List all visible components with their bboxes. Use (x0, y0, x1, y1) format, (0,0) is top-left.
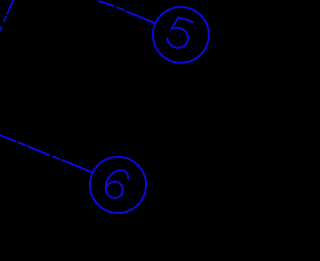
wire W3 dash segment a (0, 134, 15, 141)
wire W2 dash segment a (99, 1, 114, 6)
node label 5 (handwritten numeral) (167, 18, 193, 48)
wire W1 dot segment b (4, 17, 6, 21)
wire W2 dash segment c (meets circle 5) (127, 11, 156, 23)
wire W1 dash segment c (0, 27, 1, 34)
wire W1 (dash-dot leader line, upper-left, runs off canvas) (0, 0, 14, 34)
node callout circle 5 (153, 7, 209, 63)
wire W3 dash segment e (meets circle 6) (62, 160, 93, 173)
node callout circle 6 (90, 157, 146, 213)
wire W3 dash segment c (27, 146, 49, 155)
node label 6 (handwritten numeral) (106, 170, 128, 198)
wire W2 dot segment b (117, 8, 123, 11)
wire W3 dot segment d (53, 157, 59, 160)
wire W3 (dash-dot leader line from left edge to callout 6) (0, 134, 93, 172)
wire W3 dot segment b (18, 142, 25, 145)
wire W1 dash segment a (7, 0, 14, 13)
wire W2 (dash-dot leader line from top edge to callout 5) (99, 1, 156, 23)
